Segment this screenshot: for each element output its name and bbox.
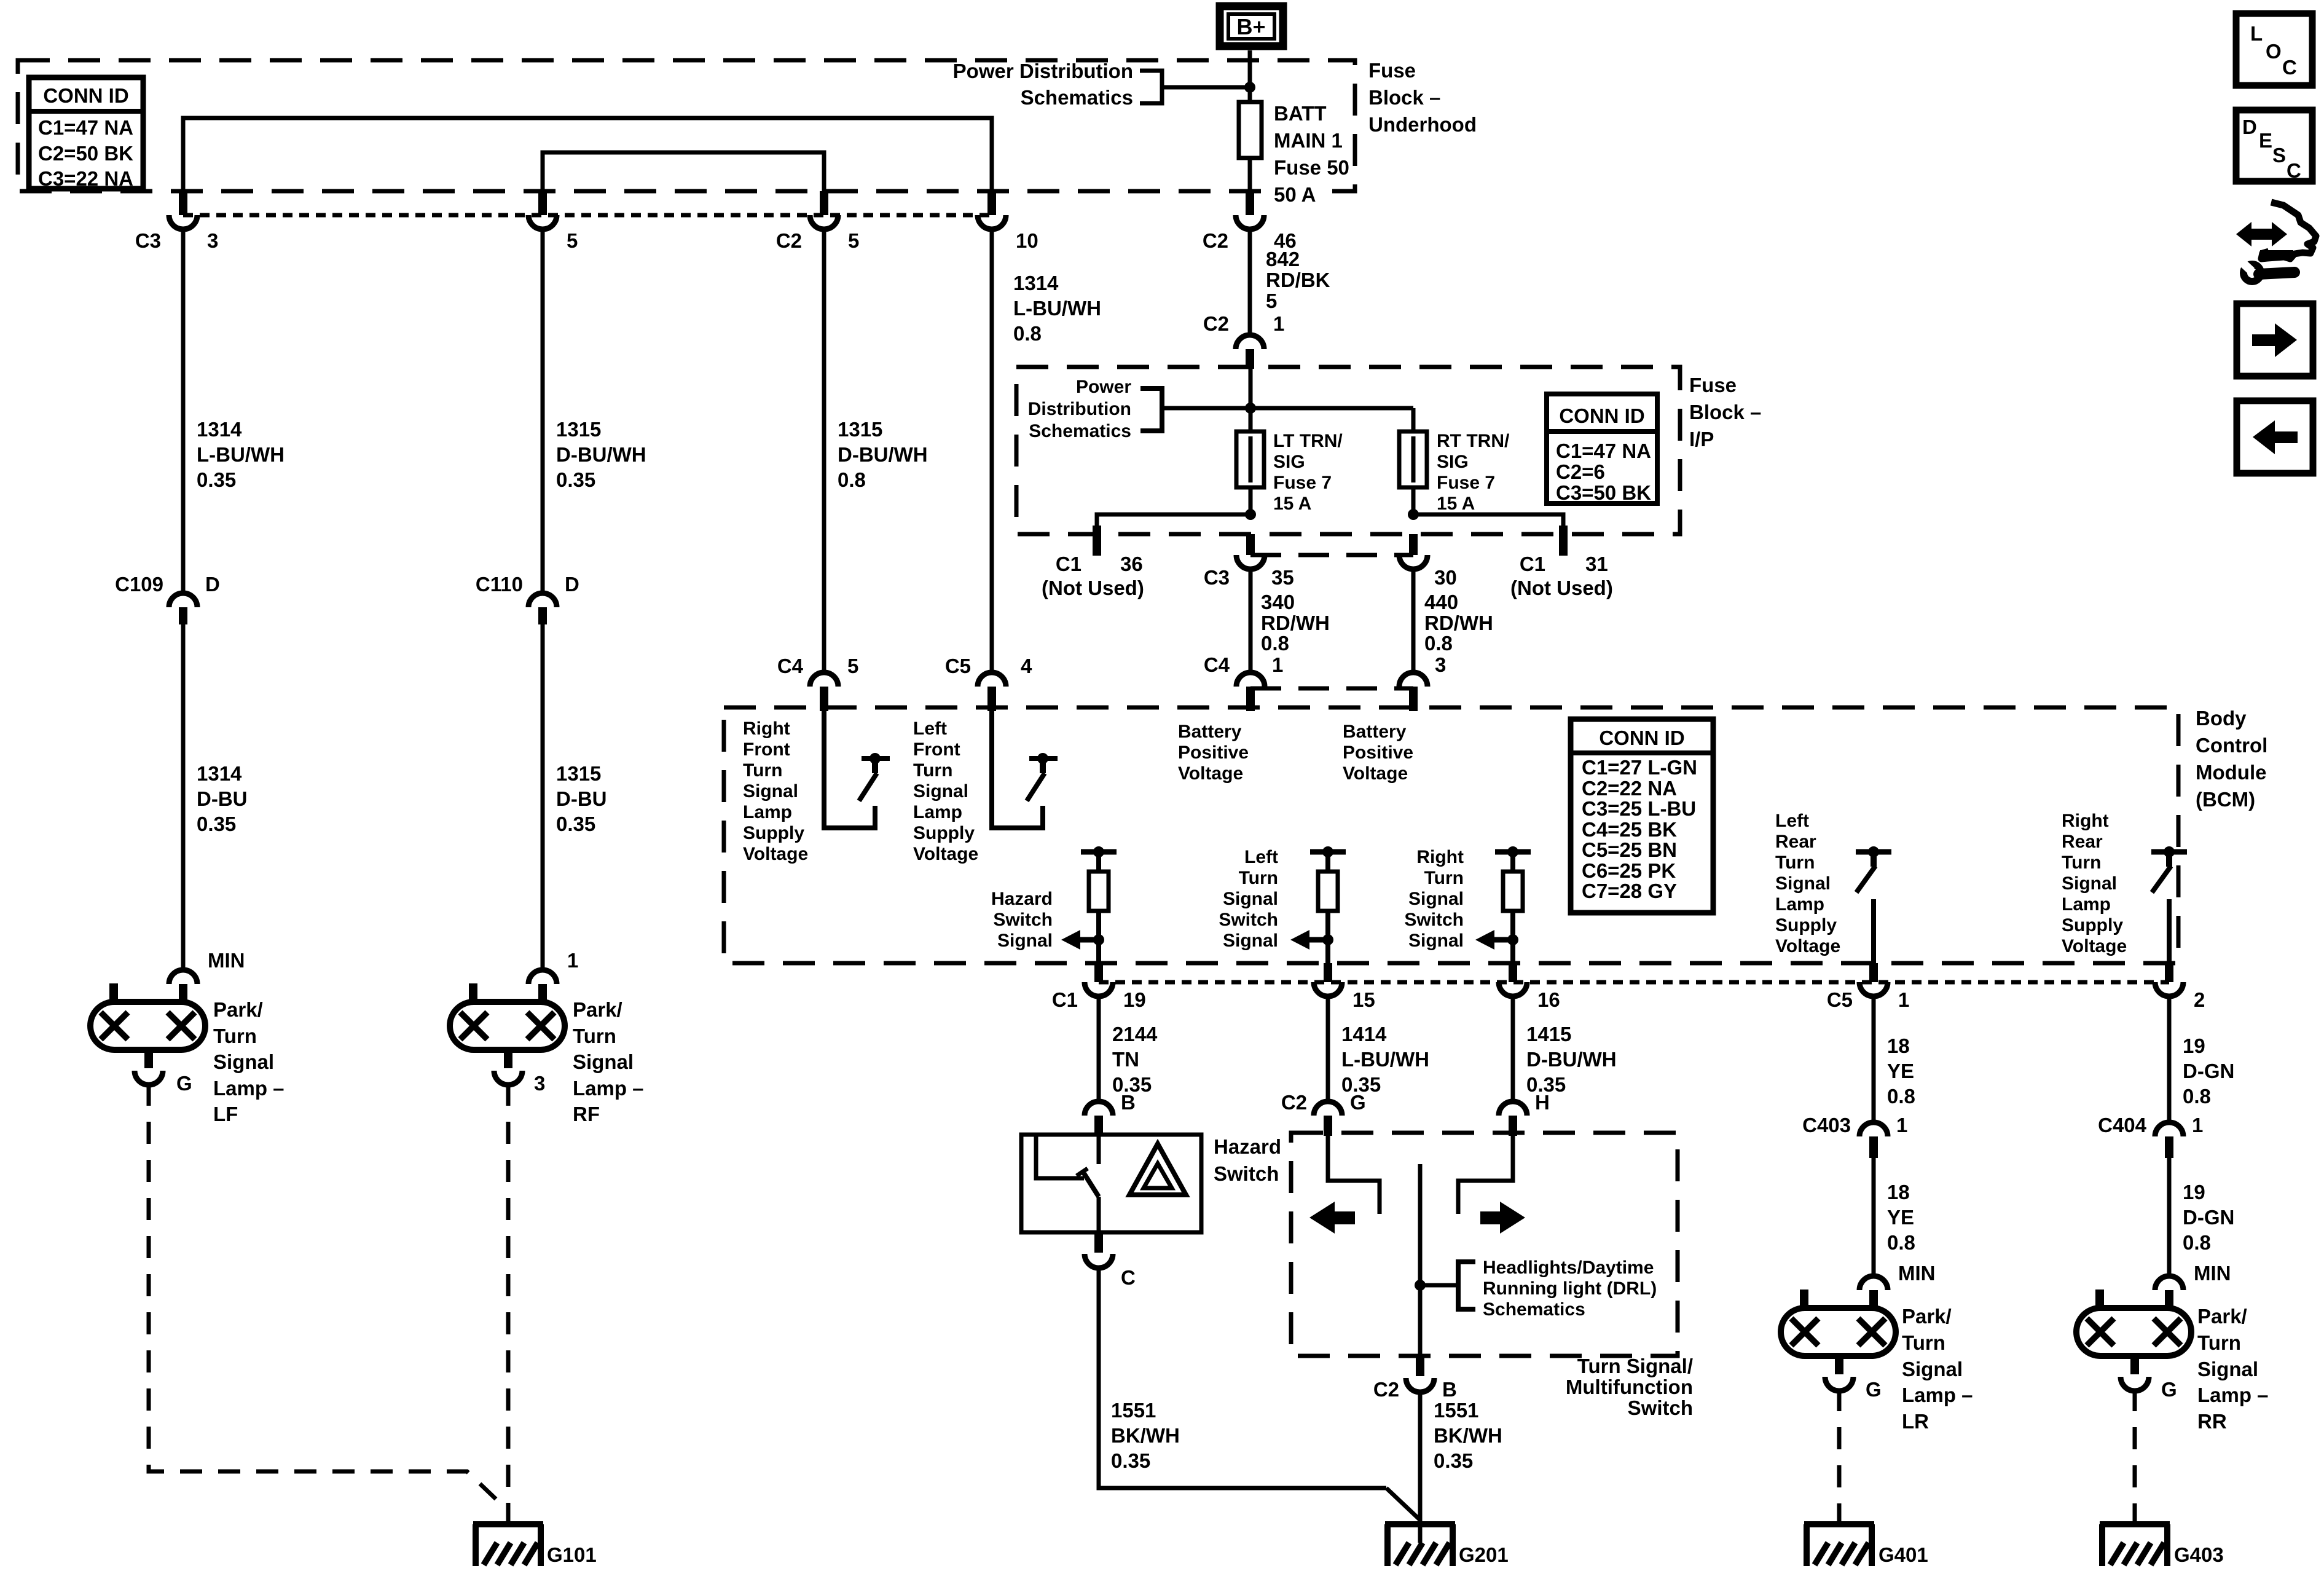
svg-text:L-BU/WH: L-BU/WH [197, 443, 285, 466]
svg-text:Signal: Signal [1223, 931, 1278, 951]
svg-text:3: 3 [1435, 653, 1446, 676]
svg-text:0.8: 0.8 [2183, 1085, 2211, 1108]
svg-text:Power Distribution: Power Distribution [953, 60, 1133, 82]
svg-text:0.8: 0.8 [1887, 1085, 1915, 1108]
svg-text:C2=22 NA: C2=22 NA [1582, 777, 1677, 800]
svg-text:19: 19 [2183, 1181, 2205, 1203]
svg-text:C7=28 GY: C7=28 GY [1582, 880, 1677, 902]
svg-text:0.8: 0.8 [838, 468, 866, 491]
svg-text:Multifunction: Multifunction [1566, 1376, 1693, 1398]
svg-text:Hazard: Hazard [991, 889, 1053, 909]
svg-text:D: D [2242, 116, 2257, 138]
svg-text:YE: YE [1887, 1206, 1914, 1229]
svg-text:D-GN: D-GN [2183, 1060, 2234, 1082]
svg-text:C2: C2 [1373, 1378, 1399, 1401]
svg-text:Positive: Positive [1178, 742, 1249, 763]
svg-text:LF: LF [213, 1103, 238, 1125]
svg-text:1: 1 [1273, 312, 1284, 335]
svg-text:C2=6: C2=6 [1556, 460, 1605, 483]
svg-text:0.35: 0.35 [556, 813, 595, 835]
svg-text:C109: C109 [115, 573, 163, 596]
svg-text:Signal: Signal [743, 781, 798, 801]
svg-text:15 A: 15 A [1273, 494, 1311, 514]
svg-text:Switch: Switch [1219, 910, 1278, 930]
svg-text:CONN ID: CONN ID [1559, 404, 1644, 427]
svg-text:19: 19 [2183, 1034, 2205, 1057]
svg-text:1314: 1314 [197, 418, 242, 441]
svg-text:C4=25 BK: C4=25 BK [1582, 818, 1677, 841]
svg-text:Block –: Block – [1689, 401, 1761, 423]
svg-text:Right: Right [743, 719, 790, 739]
svg-text:C4: C4 [1204, 653, 1230, 676]
svg-text:Turn: Turn [1902, 1331, 1945, 1354]
svg-text:RT TRN/: RT TRN/ [1437, 431, 1510, 451]
svg-text:Park/: Park/ [573, 998, 622, 1021]
svg-text:Headlights/Daytime: Headlights/Daytime [1483, 1258, 1654, 1278]
svg-text:C2: C2 [1281, 1091, 1307, 1114]
svg-text:L: L [2250, 22, 2263, 45]
svg-text:Signal: Signal [997, 931, 1053, 951]
svg-text:L-BU/WH: L-BU/WH [1341, 1048, 1429, 1071]
svg-text:C5=25 BN: C5=25 BN [1582, 838, 1677, 861]
svg-text:CONN ID: CONN ID [43, 84, 128, 107]
svg-text:Distribution: Distribution [1028, 399, 1131, 419]
svg-text:1315: 1315 [556, 762, 601, 785]
svg-text:Voltage: Voltage [1775, 936, 1840, 956]
svg-text:15: 15 [1352, 988, 1375, 1011]
svg-text:C1: C1 [1052, 988, 1078, 1011]
svg-text:Hazard: Hazard [1214, 1135, 1281, 1158]
svg-text:RF: RF [573, 1103, 600, 1125]
svg-text:3: 3 [207, 229, 218, 252]
svg-text:Power: Power [1076, 377, 1131, 397]
svg-text:C6=25 PK: C6=25 PK [1582, 859, 1676, 882]
svg-text:Control: Control [2196, 734, 2267, 757]
svg-text:18: 18 [1887, 1034, 1910, 1057]
svg-text:5: 5 [848, 229, 859, 252]
svg-text:Signal: Signal [1408, 889, 1464, 909]
svg-text:D-BU: D-BU [197, 787, 247, 810]
svg-text:RD/BK: RD/BK [1266, 269, 1330, 291]
svg-text:G: G [1350, 1091, 1366, 1114]
svg-text:B: B [1442, 1378, 1457, 1401]
svg-text:C5: C5 [1827, 988, 1853, 1011]
svg-text:Schematics: Schematics [1029, 421, 1131, 441]
svg-text:340: 340 [1261, 591, 1295, 613]
svg-text:Module: Module [2196, 761, 2266, 784]
svg-text:Turn: Turn [743, 760, 782, 781]
svg-text:Fuse: Fuse [1368, 59, 1416, 82]
svg-text:Supply: Supply [913, 823, 975, 843]
svg-text:5: 5 [847, 655, 858, 677]
svg-text:Rear: Rear [2062, 832, 2103, 852]
svg-text:YE: YE [1887, 1060, 1914, 1082]
svg-text:MIN: MIN [1898, 1262, 1936, 1285]
svg-text:2144: 2144 [1112, 1023, 1158, 1045]
svg-text:B+: B+ [1236, 14, 1265, 39]
svg-text:10: 10 [1016, 229, 1038, 252]
svg-text:Lamp –: Lamp – [573, 1077, 644, 1100]
svg-text:Rear: Rear [1775, 832, 1816, 852]
svg-text:MAIN 1: MAIN 1 [1274, 129, 1343, 152]
svg-text:C2: C2 [1203, 229, 1228, 252]
svg-text:842: 842 [1266, 248, 1300, 270]
svg-text:D: D [205, 573, 220, 596]
svg-text:1314: 1314 [197, 762, 242, 785]
svg-text:4: 4 [1021, 655, 1032, 677]
svg-text:5: 5 [567, 229, 578, 252]
svg-text:Front: Front [913, 739, 960, 760]
svg-text:Turn Signal/: Turn Signal/ [1577, 1355, 1693, 1377]
svg-text:Switch: Switch [1628, 1396, 1693, 1419]
svg-text:31: 31 [1585, 553, 1608, 575]
svg-text:RD/WH: RD/WH [1261, 612, 1330, 634]
svg-text:Signal: Signal [2062, 873, 2117, 894]
svg-text:1315: 1315 [556, 418, 601, 441]
svg-text:Right: Right [2062, 811, 2109, 831]
svg-text:Signal: Signal [213, 1050, 274, 1073]
svg-text:Park/: Park/ [2197, 1305, 2247, 1328]
svg-text:C2: C2 [776, 229, 802, 252]
svg-text:(Not Used): (Not Used) [1042, 577, 1144, 599]
svg-text:0.8: 0.8 [1261, 632, 1289, 655]
svg-text:G201: G201 [1459, 1543, 1509, 1566]
svg-text:Fuse 7: Fuse 7 [1273, 473, 1332, 493]
svg-text:H: H [1535, 1091, 1550, 1114]
svg-text:Turn: Turn [1775, 853, 1815, 873]
svg-text:L-BU/WH: L-BU/WH [1013, 297, 1101, 320]
svg-text:Turn: Turn [2197, 1331, 2241, 1354]
svg-text:C: C [2287, 159, 2301, 182]
svg-text:0.35: 0.35 [556, 468, 595, 491]
svg-text:Signal: Signal [913, 781, 968, 801]
svg-text:Lamp –: Lamp – [1902, 1384, 1973, 1406]
svg-text:18: 18 [1887, 1181, 1910, 1203]
svg-text:CONN ID: CONN ID [1599, 726, 1684, 749]
svg-text:1551: 1551 [1111, 1399, 1156, 1422]
svg-text:Underhood: Underhood [1368, 113, 1477, 136]
svg-text:Signal: Signal [1223, 889, 1278, 909]
svg-text:C4: C4 [777, 655, 804, 677]
svg-text:C3: C3 [135, 229, 161, 252]
svg-text:C404: C404 [2098, 1114, 2147, 1136]
svg-text:1: 1 [2192, 1114, 2203, 1136]
svg-text:SIG: SIG [1437, 452, 1469, 472]
svg-text:Battery: Battery [1178, 722, 1242, 742]
svg-text:36: 36 [1120, 553, 1143, 575]
svg-text:Supply: Supply [2062, 915, 2123, 935]
svg-text:G101: G101 [547, 1543, 597, 1566]
svg-text:0.8: 0.8 [1887, 1231, 1915, 1254]
svg-text:C3=50 BK: C3=50 BK [1556, 481, 1651, 504]
svg-text:1415: 1415 [1526, 1023, 1571, 1045]
svg-text:Turn: Turn [1424, 868, 1464, 888]
svg-text:C3=22 NA: C3=22 NA [38, 167, 133, 190]
svg-text:Body: Body [2196, 707, 2247, 730]
svg-text:15 A: 15 A [1437, 494, 1475, 514]
svg-text:Fuse: Fuse [1689, 374, 1737, 396]
svg-text:1315: 1315 [838, 418, 882, 441]
svg-text:Turn: Turn [2062, 853, 2101, 873]
svg-text:I/P: I/P [1689, 428, 1714, 451]
svg-text:Lamp: Lamp [743, 802, 792, 822]
svg-text:C: C [2282, 56, 2297, 79]
svg-text:1: 1 [1896, 1114, 1907, 1136]
svg-text:C110: C110 [476, 573, 523, 596]
svg-text:16: 16 [1537, 988, 1560, 1011]
svg-text:C1: C1 [1056, 553, 1082, 575]
svg-text:3: 3 [534, 1072, 545, 1095]
svg-text:Lamp: Lamp [2062, 894, 2111, 915]
svg-text:Signal: Signal [573, 1050, 634, 1073]
svg-text:Switch: Switch [1404, 910, 1464, 930]
svg-text:Switch: Switch [993, 910, 1053, 930]
svg-text:LT TRN/: LT TRN/ [1273, 431, 1343, 451]
svg-text:RR: RR [2197, 1410, 2227, 1433]
svg-text:C3=25 L-BU: C3=25 L-BU [1582, 797, 1696, 820]
svg-text:S: S [2272, 144, 2286, 167]
svg-text:Front: Front [743, 739, 790, 760]
svg-text:1314: 1314 [1013, 272, 1059, 294]
svg-text:Left: Left [913, 719, 947, 739]
svg-text:Schematics: Schematics [1483, 1299, 1585, 1320]
svg-text:30: 30 [1434, 566, 1457, 589]
svg-text:G: G [1866, 1378, 1882, 1401]
svg-text:0.35: 0.35 [197, 813, 236, 835]
svg-text:0.8: 0.8 [1013, 322, 1042, 345]
svg-text:BATT: BATT [1274, 102, 1327, 125]
svg-text:G401: G401 [1878, 1543, 1928, 1566]
svg-text:C: C [1121, 1266, 1136, 1289]
svg-text:Running light (DRL): Running light (DRL) [1483, 1278, 1657, 1299]
svg-text:BK/WH: BK/WH [1111, 1424, 1180, 1447]
svg-text:BK/WH: BK/WH [1434, 1424, 1502, 1447]
svg-text:1551: 1551 [1434, 1399, 1478, 1422]
svg-text:Supply: Supply [1775, 915, 1837, 935]
svg-text:G: G [2161, 1378, 2177, 1401]
svg-text:Left: Left [1244, 847, 1278, 867]
svg-text:0.35: 0.35 [197, 468, 236, 491]
svg-text:SIG: SIG [1273, 452, 1305, 472]
svg-text:2: 2 [2194, 988, 2205, 1011]
svg-text:Signal: Signal [1775, 873, 1831, 894]
svg-text:Fuse 7: Fuse 7 [1437, 473, 1495, 493]
svg-text:Positive: Positive [1343, 742, 1413, 763]
svg-text:50 A: 50 A [1274, 183, 1316, 206]
svg-text:E: E [2259, 129, 2272, 152]
svg-text:0.8: 0.8 [1424, 632, 1453, 655]
svg-text:C1=47 NA: C1=47 NA [38, 116, 133, 139]
svg-text:LR: LR [1902, 1410, 1929, 1433]
svg-text:G403: G403 [2174, 1543, 2224, 1566]
svg-text:RD/WH: RD/WH [1424, 612, 1493, 634]
svg-text:Turn: Turn [1239, 868, 1278, 888]
svg-text:Signal: Signal [1408, 931, 1464, 951]
svg-text:(BCM): (BCM) [2196, 788, 2255, 811]
svg-text:D-BU/WH: D-BU/WH [556, 443, 646, 466]
svg-text:Block –: Block – [1368, 86, 1440, 109]
svg-text:Left: Left [1775, 811, 1809, 831]
svg-text:0.35: 0.35 [1434, 1449, 1473, 1472]
svg-text:0.35: 0.35 [1111, 1449, 1150, 1472]
svg-text:C1=47 NA: C1=47 NA [1556, 439, 1651, 462]
svg-text:C3: C3 [1204, 566, 1230, 589]
svg-text:MIN: MIN [2194, 1262, 2231, 1285]
svg-text:D: D [565, 573, 579, 596]
svg-text:Voltage: Voltage [2062, 936, 2127, 956]
svg-text:C1=27 L-GN: C1=27 L-GN [1582, 756, 1697, 779]
svg-text:D-BU/WH: D-BU/WH [1526, 1048, 1617, 1071]
svg-text:C2=50 BK: C2=50 BK [38, 142, 133, 165]
svg-text:TN: TN [1112, 1048, 1139, 1071]
svg-text:C2: C2 [1203, 312, 1229, 335]
svg-text:Turn: Turn [573, 1025, 616, 1047]
svg-text:MIN: MIN [208, 949, 245, 972]
svg-text:Voltage: Voltage [743, 844, 808, 864]
svg-text:G: G [176, 1072, 192, 1095]
svg-text:1: 1 [567, 949, 578, 972]
svg-text:D-BU: D-BU [556, 787, 607, 810]
svg-text:1414: 1414 [1341, 1023, 1387, 1045]
svg-text:Park/: Park/ [213, 998, 263, 1021]
svg-text:Schematics: Schematics [1021, 86, 1133, 109]
svg-text:1: 1 [1898, 988, 1909, 1011]
svg-text:Voltage: Voltage [1178, 763, 1243, 784]
svg-text:Lamp –: Lamp – [2197, 1384, 2269, 1406]
svg-text:C5: C5 [945, 655, 971, 677]
svg-text:1: 1 [1272, 653, 1283, 676]
svg-text:Voltage: Voltage [913, 844, 978, 864]
svg-text:Signal: Signal [2197, 1358, 2258, 1380]
svg-text:5: 5 [1266, 289, 1277, 312]
svg-text:(Not Used): (Not Used) [1510, 577, 1613, 599]
svg-text:0.8: 0.8 [2183, 1231, 2211, 1254]
svg-text:Lamp –: Lamp – [213, 1077, 285, 1100]
svg-text:440: 440 [1424, 591, 1458, 613]
svg-text:Turn: Turn [913, 760, 952, 781]
svg-text:35: 35 [1271, 566, 1294, 589]
svg-text:Park/: Park/ [1902, 1305, 1952, 1328]
svg-text:Switch: Switch [1214, 1162, 1279, 1185]
svg-text:19: 19 [1123, 988, 1146, 1011]
svg-text:D-GN: D-GN [2183, 1206, 2234, 1229]
svg-text:Voltage: Voltage [1343, 763, 1408, 784]
svg-text:Right: Right [1416, 847, 1464, 867]
svg-text:Lamp: Lamp [1775, 894, 1824, 915]
svg-text:Lamp: Lamp [913, 802, 962, 822]
svg-text:Battery: Battery [1343, 722, 1407, 742]
svg-text:D-BU/WH: D-BU/WH [838, 443, 928, 466]
svg-text:C1: C1 [1520, 553, 1545, 575]
svg-text:Turn: Turn [213, 1025, 257, 1047]
svg-text:O: O [2266, 40, 2282, 63]
svg-text:B: B [1121, 1091, 1136, 1114]
svg-text:Signal: Signal [1902, 1358, 1963, 1380]
svg-text:Fuse 50: Fuse 50 [1274, 156, 1349, 179]
svg-text:C403: C403 [1802, 1114, 1851, 1136]
svg-text:Supply: Supply [743, 823, 804, 843]
